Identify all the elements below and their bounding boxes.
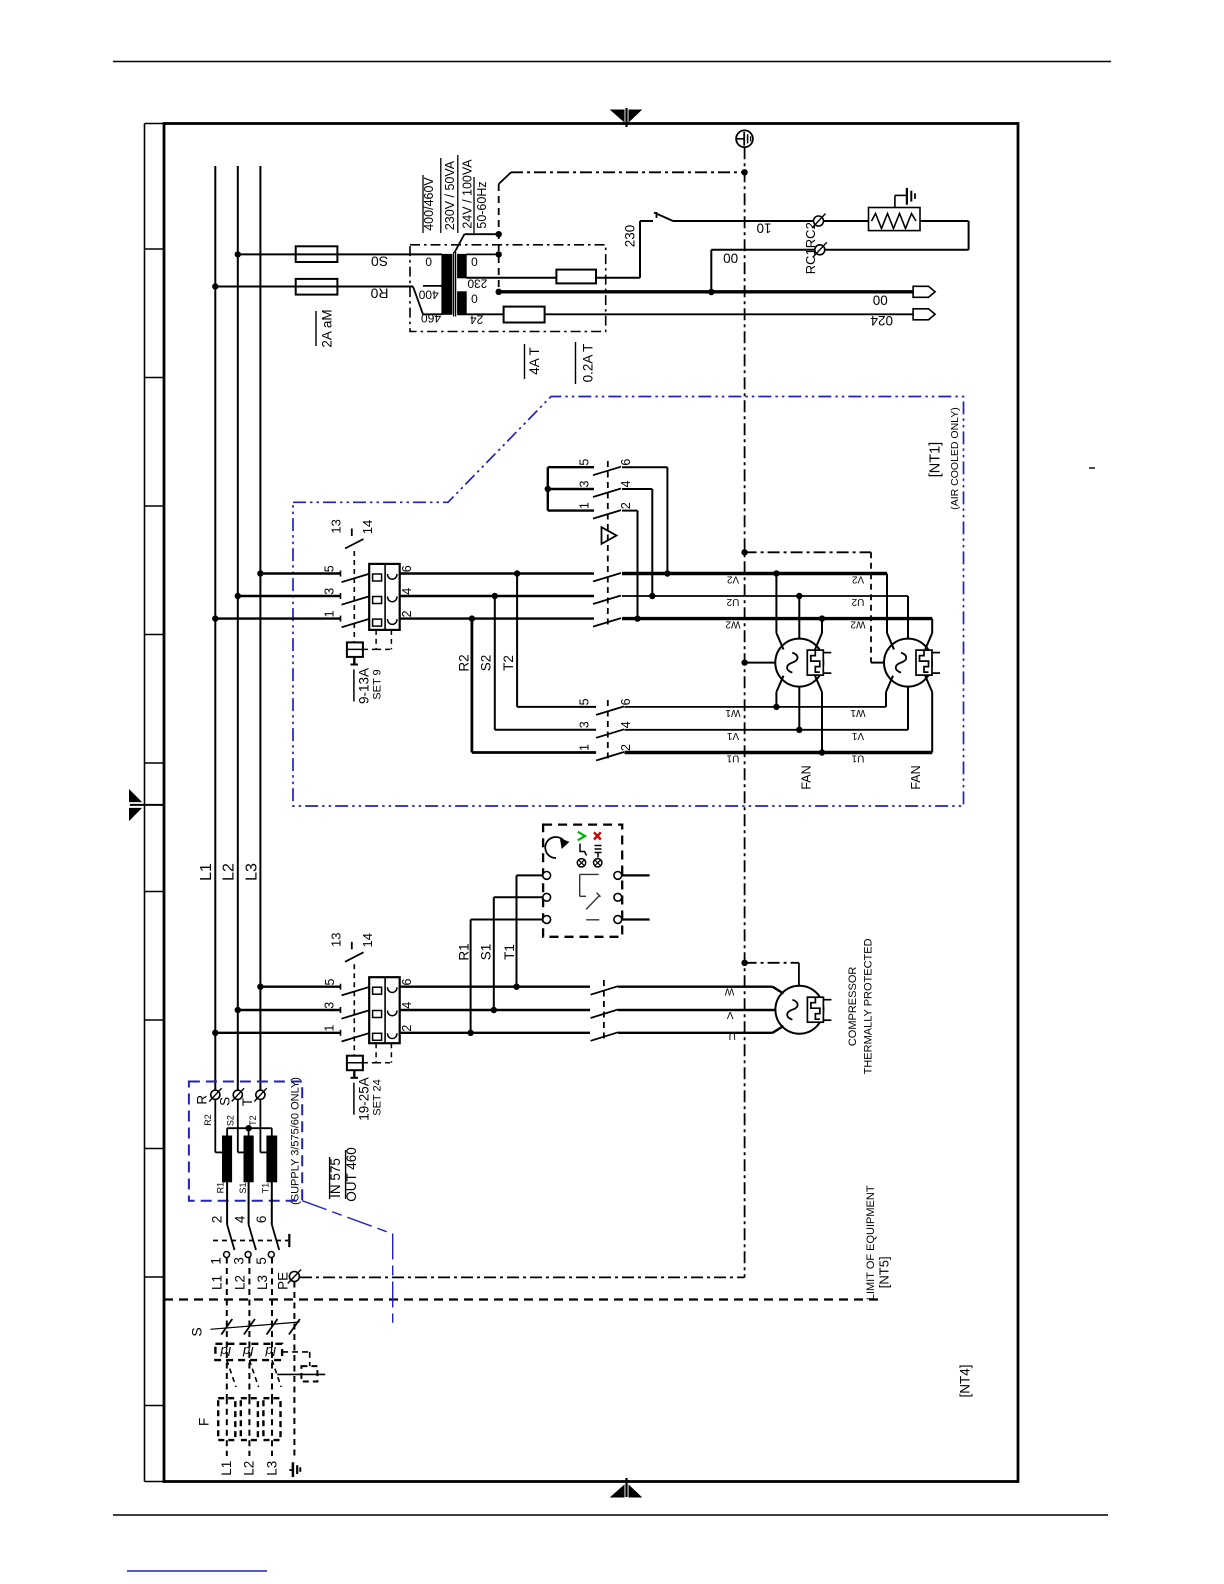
svg-text:R1: R1 xyxy=(216,1182,226,1194)
wire R tap xyxy=(215,1099,222,1152)
svg-text:[NT4]: [NT4] xyxy=(957,1364,972,1397)
pins K3 xyxy=(577,459,633,509)
svg-text:S2: S2 xyxy=(479,655,494,672)
svg-text:9-13A: 9-13A xyxy=(357,668,372,704)
wire rows OL1 to K1 xyxy=(400,986,590,988)
wire fan2 U1 lead xyxy=(925,676,932,753)
svg-text:R2: R2 xyxy=(203,1114,213,1126)
sensor diag stubs xyxy=(227,1360,281,1387)
svg-text:0: 0 xyxy=(471,291,478,305)
limit dashed line xyxy=(164,1298,880,1300)
svg-text:IN 575: IN 575 xyxy=(328,1158,343,1198)
phase monitor terminals left xyxy=(543,872,551,924)
svg-text:460: 460 xyxy=(421,311,441,325)
svg-text:14: 14 xyxy=(360,933,375,947)
svg-text:V1: V1 xyxy=(851,730,864,741)
label 9-13A xyxy=(354,668,372,704)
svg-text:L1: L1 xyxy=(210,1275,225,1290)
svg-text:L1: L1 xyxy=(219,1461,234,1476)
label OUT 460 xyxy=(344,1147,359,1202)
wire dash-dot PE top link xyxy=(499,169,748,184)
wire fan row2 from L2 xyxy=(235,593,340,599)
wire S1 out xyxy=(248,1182,250,1225)
wire PE dashed xyxy=(293,1282,295,1459)
svg-text:RC1RC2: RC1RC2 xyxy=(803,222,818,274)
NT1 boundary box xyxy=(293,397,964,807)
wire R0 xyxy=(212,283,442,314)
motor FAN1 xyxy=(775,639,831,687)
wire fan1 W2 lead xyxy=(815,615,825,649)
wire rows OL2 to K2 xyxy=(400,572,594,574)
svg-text:2: 2 xyxy=(619,502,633,509)
svg-text:L2: L2 xyxy=(232,1275,247,1290)
svg-text:S: S xyxy=(218,1097,233,1106)
svg-text:0: 0 xyxy=(425,254,432,268)
fold-mark column xyxy=(145,124,165,1482)
svg-text:T2: T2 xyxy=(501,655,516,671)
svg-text:V2: V2 xyxy=(851,574,864,585)
trip box OL2 xyxy=(347,630,392,665)
svg-text:Id: Id xyxy=(242,1344,254,1359)
aux contact OL2 xyxy=(345,529,364,643)
wire fan row3 from L1 xyxy=(212,615,340,621)
blue leader line xyxy=(302,1201,393,1323)
svg-text:LIMIT OF EQUIPMENT: LIMIT OF EQUIPMENT xyxy=(865,1185,877,1300)
svg-text:T1: T1 xyxy=(502,944,517,960)
label transformer ratings xyxy=(422,155,489,233)
left centering mark xyxy=(130,790,165,820)
svg-text:400/460V: 400/460V xyxy=(422,177,436,231)
svg-text:4: 4 xyxy=(400,588,414,595)
supply 575 box blue xyxy=(189,1082,302,1201)
svg-text:4: 4 xyxy=(619,480,633,487)
wire fan2 V2 lead xyxy=(887,574,894,650)
wire R1 out xyxy=(226,1182,228,1225)
wire monitor out bottom xyxy=(622,918,650,920)
svg-text:024: 024 xyxy=(870,313,893,328)
wire R2 xyxy=(469,615,596,752)
svg-text:3: 3 xyxy=(323,1002,337,1009)
svg-text:S1: S1 xyxy=(238,1182,248,1193)
terminal PE xyxy=(288,1270,301,1284)
transformer core xyxy=(453,252,455,317)
top centering mark xyxy=(611,108,641,127)
svg-text:U1: U1 xyxy=(726,753,739,764)
overload relay OL2 9-13A xyxy=(341,564,400,630)
wire L3 bus xyxy=(259,166,261,1091)
wire fan1 U2 lead xyxy=(796,593,802,639)
svg-text:400: 400 xyxy=(418,287,438,301)
pins OL2 xyxy=(323,565,414,617)
labels compressor terminals xyxy=(724,985,736,1041)
linkage triangle xyxy=(602,527,617,544)
autotransformer winding R xyxy=(223,1136,232,1182)
wire comp row3 from L1 xyxy=(212,1030,340,1036)
label 0.2A T xyxy=(576,342,596,384)
svg-text:F: F xyxy=(197,1418,212,1426)
motor FAN2 xyxy=(884,639,940,687)
wire L2 dashed xyxy=(248,1258,250,1399)
wire T2 xyxy=(514,570,596,707)
svg-text:THERMALLY PROTECTED: THERMALLY PROTECTED xyxy=(862,938,874,1074)
svg-text:W2: W2 xyxy=(725,619,740,630)
wire T1 out xyxy=(271,1182,273,1225)
bottom centering mark xyxy=(611,1478,641,1497)
labels L1 L2 L3 PE xyxy=(210,1272,291,1290)
wire sec 0 to node xyxy=(455,234,499,254)
svg-text:U2: U2 xyxy=(851,596,864,607)
svg-text:19-25A: 19-25A xyxy=(357,1077,372,1121)
svg-text:2: 2 xyxy=(210,1216,225,1224)
monitor lamp fault xyxy=(594,846,602,868)
svg-text:1: 1 xyxy=(209,1257,224,1265)
svg-text:1: 1 xyxy=(323,1025,337,1032)
svg-text:PE: PE xyxy=(275,1272,290,1290)
wire fan2 W2 lead xyxy=(925,619,932,650)
svg-text:3: 3 xyxy=(577,480,591,487)
ground PE bottom xyxy=(289,1462,300,1477)
wire R1 xyxy=(467,920,542,1037)
svg-text:13: 13 xyxy=(329,519,344,533)
wire T tap xyxy=(260,1099,267,1152)
svg-text:L3: L3 xyxy=(243,863,260,881)
wire fan1 V1 lead xyxy=(796,687,802,733)
drawing border frame xyxy=(164,124,1018,1482)
svg-text:6: 6 xyxy=(619,698,633,705)
svg-text:S1: S1 xyxy=(479,944,494,961)
svg-text:1: 1 xyxy=(577,744,591,751)
svg-text:T: T xyxy=(240,1098,255,1106)
wire 230 secondary xyxy=(466,277,556,279)
monitor lamp OK xyxy=(577,844,586,868)
wire fan1 PE stub xyxy=(741,659,775,665)
svg-text:R1: R1 xyxy=(457,943,472,960)
svg-text:2: 2 xyxy=(400,1025,414,1032)
svg-text:Id: Id xyxy=(220,1344,232,1359)
wire fan1 U1 lead xyxy=(815,676,825,756)
svg-text:5: 5 xyxy=(577,698,591,705)
svg-text:50-60Hz: 50-60Hz xyxy=(475,181,489,228)
ground earth circle symbol xyxy=(736,130,753,147)
pins OL1 xyxy=(323,978,414,1031)
autotransformer winding T xyxy=(267,1136,277,1182)
wire L1 dashed xyxy=(226,1258,228,1399)
switch S blades xyxy=(210,1319,300,1335)
svg-text:W1: W1 xyxy=(725,707,740,718)
labels pl xyxy=(220,1344,277,1359)
svg-text:10: 10 xyxy=(756,221,771,236)
svg-text:V2: V2 xyxy=(726,574,739,585)
autotransformer winding S xyxy=(244,1136,253,1182)
svg-text:3: 3 xyxy=(577,721,591,728)
wire K3 out4 xyxy=(622,489,656,599)
trip box OL1 xyxy=(347,1043,392,1078)
monitor OK check green xyxy=(578,832,585,841)
svg-text:SET 9: SET 9 xyxy=(372,669,384,699)
svg-text:L2: L2 xyxy=(242,1461,257,1476)
wire W2 row xyxy=(622,617,932,620)
svg-text:6: 6 xyxy=(619,459,633,466)
svg-text:00: 00 xyxy=(723,251,738,266)
wire comp row2 from L2 xyxy=(235,1007,340,1013)
terminal RC2 xyxy=(813,242,827,256)
monitor rotation arrow xyxy=(545,837,568,858)
svg-text:6: 6 xyxy=(400,978,414,985)
wire 230 riser + switch contact xyxy=(640,212,814,278)
svg-text:R0: R0 xyxy=(370,286,388,302)
wire L3 dashed xyxy=(271,1258,273,1399)
wire 00 bus xyxy=(499,290,913,293)
page footer rule xyxy=(113,1514,1108,1516)
svg-text:5: 5 xyxy=(254,1257,269,1265)
wire W1 row xyxy=(625,706,887,708)
wire fan2 V1 lead xyxy=(907,687,909,730)
overload relay OL1 19-25A xyxy=(341,977,400,1043)
svg-text:5: 5 xyxy=(323,978,337,985)
svg-text:T2: T2 xyxy=(248,1115,258,1126)
wire PE dash-dot main vertical xyxy=(744,147,746,1277)
wire S2 xyxy=(492,593,597,730)
svg-text:V1: V1 xyxy=(726,730,739,741)
svg-text:3: 3 xyxy=(231,1257,246,1265)
fuse F2 xyxy=(241,1398,258,1440)
label 2A aM xyxy=(316,309,335,347)
motor COMPRESSOR xyxy=(775,986,831,1034)
terminal R xyxy=(209,1088,221,1101)
wire fan2 U2 lead xyxy=(907,596,909,639)
svg-text:W1: W1 xyxy=(850,707,865,718)
svg-text:V: V xyxy=(727,1009,734,1020)
blue footer line xyxy=(127,1570,267,1572)
svg-text:4: 4 xyxy=(233,1215,248,1223)
wire fuse tails xyxy=(227,1398,272,1456)
svg-text:S: S xyxy=(188,1327,204,1336)
wire U1 row xyxy=(625,751,933,754)
svg-text:U1: U1 xyxy=(851,753,864,764)
wire comp PE branch xyxy=(741,960,799,986)
terminal RC1 xyxy=(812,214,826,229)
svg-text:13: 13 xyxy=(329,932,344,946)
disconnect linkage xyxy=(213,1234,289,1247)
right margin tiny dash xyxy=(1089,467,1095,469)
phase monitor box xyxy=(543,825,622,937)
wire T1 xyxy=(513,875,542,990)
wire V2 row xyxy=(622,572,887,575)
svg-text:3: 3 xyxy=(323,588,337,595)
svg-text:[NT5]: [NT5] xyxy=(876,1256,891,1288)
labels fan2 terminals xyxy=(850,574,865,764)
svg-text:6: 6 xyxy=(400,565,414,572)
svg-text:5: 5 xyxy=(323,565,337,572)
transformer secondary 24V winding xyxy=(458,292,467,315)
svg-text:R2: R2 xyxy=(456,654,471,671)
aux contact OL1 xyxy=(345,942,364,1056)
wire winding common bus xyxy=(227,1125,272,1136)
wire 024 xyxy=(458,313,504,315)
svg-text:COMPRESSOR: COMPRESSOR xyxy=(847,967,859,1047)
label IN 575 xyxy=(328,1157,343,1199)
fuse 0.2A T xyxy=(504,307,545,323)
wire to heater xyxy=(824,220,869,222)
svg-text:U: U xyxy=(729,1030,736,1041)
svg-text:0.2A T: 0.2A T xyxy=(581,344,596,383)
wire PE dash-dot horizontal xyxy=(300,1276,745,1278)
svg-text:L3: L3 xyxy=(255,1275,270,1290)
svg-text:1: 1 xyxy=(323,610,337,617)
svg-text:FAN: FAN xyxy=(909,765,923,789)
resistor RC heater xyxy=(869,208,921,231)
terminal T xyxy=(254,1088,266,1101)
svg-text:2: 2 xyxy=(400,610,414,617)
svg-text:4: 4 xyxy=(619,721,633,728)
svg-text:L1: L1 xyxy=(198,863,215,881)
terminal S xyxy=(232,1088,244,1101)
svg-text:W: W xyxy=(724,985,734,996)
svg-text:FAN: FAN xyxy=(799,765,813,789)
wire L1 bus xyxy=(214,166,216,1091)
fuse F3 xyxy=(263,1398,280,1440)
ground sensor box xyxy=(277,1352,325,1382)
wire heater return xyxy=(825,221,969,250)
svg-text:14: 14 xyxy=(360,520,375,534)
node 0V dashed link xyxy=(496,184,502,295)
contactor K3 star bridge xyxy=(545,467,621,519)
pins 2 4 6 xyxy=(210,1215,270,1223)
wire fan row1 from L3 xyxy=(257,570,340,576)
contactor K1 xyxy=(591,980,618,1041)
svg-text:(SUPPLY 3/575/60 ONLY): (SUPPLY 3/575/60 ONLY) xyxy=(290,1077,302,1205)
wire fan2 W1 lead xyxy=(886,676,893,707)
ground at heater xyxy=(895,188,915,208)
wire S0 xyxy=(235,251,442,257)
disconnect lower pins xyxy=(224,1252,275,1258)
svg-text:SET 24: SET 24 xyxy=(372,1079,384,1116)
contactor K2 xyxy=(593,573,621,627)
pointer 00 xyxy=(913,286,935,297)
svg-text:4: 4 xyxy=(400,1002,414,1009)
svg-text:[NT1]: [NT1] xyxy=(928,442,944,477)
page header rule xyxy=(113,61,1111,63)
fuse 2A R0 xyxy=(296,279,338,295)
wire RC2 to 00 bus xyxy=(708,250,814,295)
linkage K3-K2 dashed xyxy=(607,461,609,627)
phase monitor terminals right xyxy=(614,872,622,924)
wire fan1 V2 lead xyxy=(773,570,783,649)
svg-text:2: 2 xyxy=(619,744,633,751)
label 19-25A xyxy=(354,1077,372,1121)
wire K3 out2 xyxy=(622,511,641,622)
wire K1 to compressor xyxy=(618,987,784,1033)
labels L1 L2 L3 bottom xyxy=(219,1461,279,1476)
svg-text:2A aM: 2A aM xyxy=(320,309,335,347)
svg-text:1: 1 xyxy=(577,502,591,509)
wire S tap xyxy=(238,1099,244,1152)
svg-text:S2: S2 xyxy=(225,1115,235,1126)
svg-text:W2: W2 xyxy=(850,619,865,630)
monitor relay contact xyxy=(580,874,601,919)
wire V1 row xyxy=(625,729,909,731)
svg-text:6: 6 xyxy=(254,1216,269,1224)
wire L2 bus xyxy=(237,166,239,1091)
svg-text:S0: S0 xyxy=(371,254,388,270)
svg-text:00: 00 xyxy=(873,293,888,308)
pointer 024 xyxy=(913,309,935,320)
wire comp row1 from L3 xyxy=(257,984,340,990)
svg-text:5: 5 xyxy=(577,459,591,466)
disconnect blades xyxy=(227,1225,279,1251)
svg-text:230V / 50VA: 230V / 50VA xyxy=(443,160,457,230)
svg-text:(AIR COOLED ONLY): (AIR COOLED ONLY) xyxy=(949,407,961,510)
wire fan2 PE branch xyxy=(741,549,884,663)
svg-text:4A T: 4A T xyxy=(527,347,542,375)
wire K3 out6 xyxy=(622,467,671,577)
transformer primary winding xyxy=(442,254,452,314)
svg-text:L2: L2 xyxy=(220,863,237,881)
svg-text:230: 230 xyxy=(623,225,638,248)
svg-text:24V / 100VA: 24V / 100VA xyxy=(460,159,474,229)
sensor box PJ xyxy=(215,1344,282,1360)
svg-text:T1: T1 xyxy=(261,1183,271,1194)
label 4A T xyxy=(525,344,543,379)
svg-text:0: 0 xyxy=(471,254,478,268)
svg-text:R: R xyxy=(195,1095,210,1105)
wire U2 row xyxy=(622,595,908,597)
transformer T dash-dot enclosure xyxy=(410,245,606,332)
svg-text:Id: Id xyxy=(265,1344,277,1359)
svg-text:U2: U2 xyxy=(726,596,739,607)
wire monitor out top xyxy=(622,874,650,876)
fuse 4A T xyxy=(556,270,596,284)
svg-text:L3: L3 xyxy=(264,1461,279,1476)
fuse F1 xyxy=(218,1398,235,1440)
fuse 2A S0 xyxy=(296,246,338,262)
pins K4 xyxy=(577,698,633,751)
pins 1 3 5 xyxy=(209,1257,269,1265)
svg-text:OUT 460: OUT 460 xyxy=(344,1147,359,1202)
linkage K4 dashed xyxy=(607,700,609,761)
monitor fault X red xyxy=(594,832,601,839)
transformer secondary 230V winding xyxy=(458,254,467,277)
wire S1 xyxy=(491,897,543,1013)
wire fan1 W1 lead xyxy=(773,676,783,710)
labels fan1 terminals xyxy=(725,574,740,764)
contactor K4 xyxy=(596,706,624,760)
